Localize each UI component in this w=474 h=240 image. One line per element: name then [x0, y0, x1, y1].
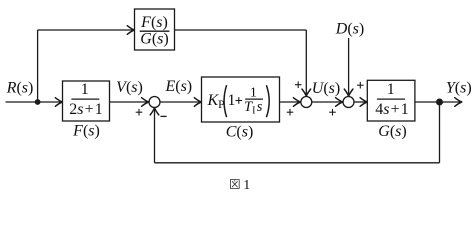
- svg-text:KP: KP: [207, 92, 225, 111]
- wire: feedforward horizontal into F/G block: [38, 29, 133, 31]
- svg-text:F(s): F(s): [72, 123, 100, 140]
- fraction bar in block F: [71, 98, 99, 100]
- arrowhead up into sum1: [150, 108, 159, 115]
- svg-text:G(s): G(s): [378, 123, 406, 140]
- fraction bar in block F/G: [140, 30, 170, 32]
- plus sign at sum3 left input: [329, 109, 336, 116]
- block F(s) rect: [63, 81, 110, 121]
- svg-text:D(s): D(s): [335, 20, 364, 37]
- summing junction S2: [301, 97, 312, 108]
- arrowhead into block F: [55, 98, 62, 107]
- svg-text:E(s): E(s): [164, 78, 192, 95]
- wire: block G to output Y(s): [415, 101, 461, 103]
- arrowhead into block F/G: [127, 26, 134, 35]
- arrowhead into block G: [360, 98, 367, 107]
- wire: feedback bottom horizontal: [155, 162, 440, 164]
- wire: drop down into sum2: [305, 30, 307, 96]
- block F/G feedforward rect: [135, 9, 175, 50]
- wire: feedback up into sum1: [154, 109, 156, 162]
- wire: sum2 to sum3: [312, 101, 342, 103]
- plus sign at sum3 top input: [357, 82, 364, 89]
- svg-text:2s+1: 2s+1: [69, 101, 102, 118]
- plus sign at sum2 top input: [295, 81, 302, 88]
- wire: input R(s) to block F: [6, 101, 62, 103]
- svg-text:1: 1: [228, 92, 236, 109]
- svg-text:1: 1: [243, 178, 250, 193]
- wire: block F to sum1: [110, 101, 149, 103]
- svg-text:Y(s): Y(s): [446, 79, 472, 96]
- block C(s) rect: [202, 77, 280, 122]
- svg-text:TIs: TIs: [244, 99, 263, 117]
- arrowhead into sum3: [336, 98, 343, 107]
- fraction bar in block G: [377, 98, 405, 100]
- wire: F/G block to corner above sum2: [175, 29, 307, 31]
- arrowhead into sum1: [142, 98, 149, 107]
- svg-text:U(s): U(s): [312, 80, 340, 97]
- arrowhead into block C: [194, 98, 201, 107]
- arrowhead down into sum3: [344, 89, 353, 96]
- block G(s) rect: [367, 80, 415, 121]
- wire: node1 up to feedforward: [37, 30, 39, 102]
- wire: block C to sum2: [280, 101, 300, 103]
- big right paren in block C: [266, 85, 269, 117]
- wire: sum1 to block C: [160, 101, 200, 103]
- fraction bar inner block C: [245, 98, 263, 100]
- plus sign at sum2 left input: [287, 109, 294, 116]
- svg-text:1: 1: [387, 81, 395, 98]
- svg-text:4s+1: 4s+1: [375, 101, 408, 118]
- svg-text:F(s): F(s): [140, 14, 168, 31]
- svg-text:1: 1: [81, 81, 89, 98]
- arrowhead output Y(s): [455, 98, 462, 107]
- plus sign at sum1 left input: [136, 109, 143, 116]
- svg-text:C(s): C(s): [226, 123, 254, 140]
- svg-text:R(s): R(s): [6, 79, 34, 96]
- wire: D(s) drop into sum3: [348, 38, 350, 96]
- arrowhead down into sum2: [302, 89, 311, 96]
- wire: sum3 to block G: [354, 101, 366, 103]
- minus sign at sum1 feedback input: [161, 115, 167, 117]
- svg-text:V(s): V(s): [116, 79, 143, 96]
- node A: pickoff dot after R(s): [35, 99, 41, 105]
- arrowhead into sum2: [293, 98, 300, 107]
- wire: feedback from node2 down: [439, 102, 441, 163]
- svg-text:G(s): G(s): [140, 31, 168, 48]
- caption 図 glyph: [230, 180, 239, 189]
- node B: pickoff dot before Y(s): [436, 99, 443, 106]
- summing junction S1: [149, 97, 160, 108]
- summing junction S3: [343, 97, 354, 108]
- big left paren in block C: [224, 85, 227, 117]
- plus sign in block C formula: [236, 97, 243, 104]
